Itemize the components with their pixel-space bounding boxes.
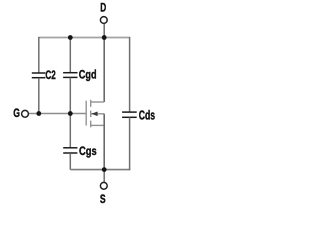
wire Cds branch lower (129, 118, 131, 171)
wire bottom node to S terminal (103, 170, 105, 183)
node dot gate C2 junction (36, 111, 41, 116)
transistor Q1 MOSFET (86, 100, 104, 128)
wire C2 branch upper (38, 37, 40, 73)
wire Cgd branch upper (69, 37, 71, 73)
wire D terminal to drain node (103, 23, 105, 37)
node dot source junction (102, 167, 107, 172)
wire gate column Cgd to Cgs (69, 78, 71, 148)
capacitor Cgs (63, 145, 96, 158)
capacitor Cgd (63, 68, 96, 82)
wire top bus D node (39, 37, 130, 39)
wire Cgs to bottom bus (69, 153, 71, 169)
svg-text:C2: C2 (45, 70, 56, 83)
svg-text:D: D (100, 2, 106, 15)
wire Cds branch upper (129, 37, 131, 112)
wire source column to bottom bus (103, 114, 105, 170)
svg-text:Cgs: Cgs (79, 145, 97, 158)
terminal S (100, 182, 107, 206)
svg-text:G: G (13, 108, 20, 120)
svg-text:S: S (100, 194, 106, 206)
svg-text:Cds: Cds (139, 109, 155, 123)
node dot top drain junction (102, 35, 107, 40)
svg-text:Cgd: Cgd (79, 68, 97, 82)
capacitor Cds (122, 109, 155, 123)
node dot gate Cgs junction (68, 111, 73, 116)
terminal D (100, 2, 107, 23)
capacitor C2 (32, 70, 56, 83)
wire gate lead from G terminal (28, 113, 86, 115)
terminal G (13, 108, 28, 120)
wire drain node to transistor (103, 38, 105, 103)
wire C2 branch lower (38, 78, 40, 114)
wire bottom bus S node (70, 169, 130, 171)
node dot top Cgd junction (68, 35, 73, 40)
